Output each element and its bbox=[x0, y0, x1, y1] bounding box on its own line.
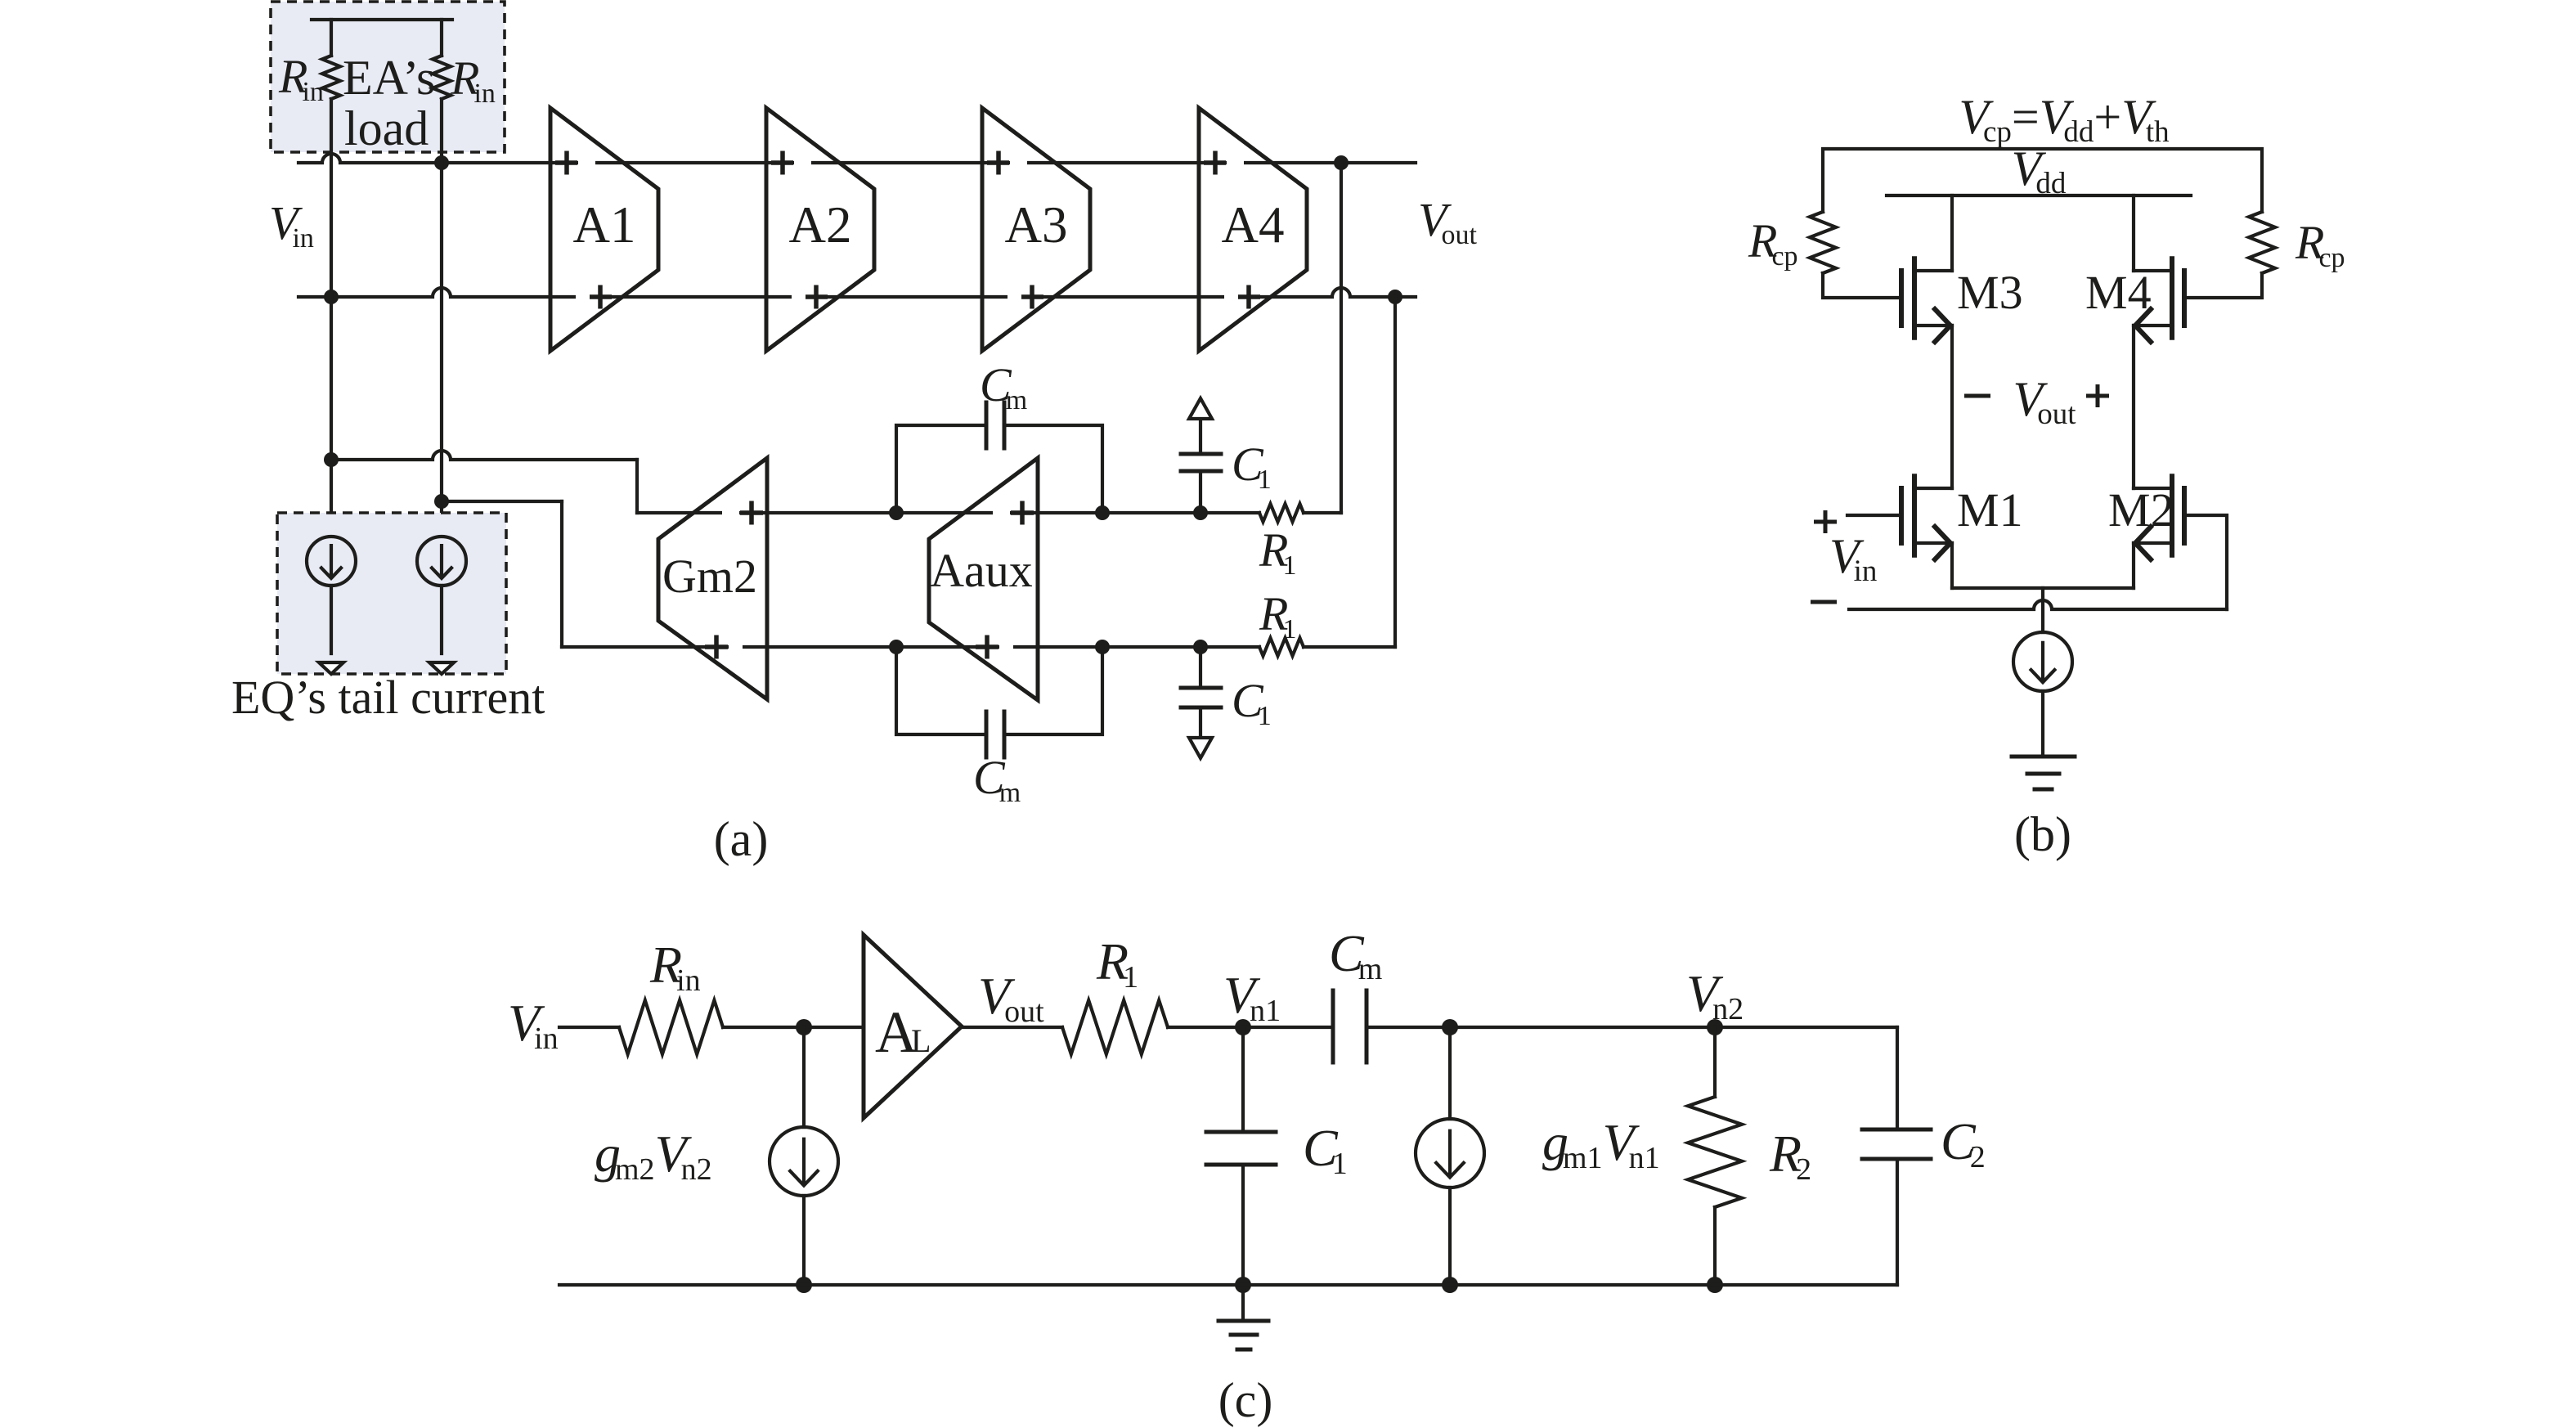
resistor Rin right bbox=[433, 56, 451, 99]
A3 wire gap bottom (input minus) bbox=[1008, 294, 1021, 301]
A1 wire gap top (output minus) bbox=[578, 159, 595, 167]
node dot Cm bottom right bbox=[1095, 640, 1110, 654]
node dot R2 bottom bbox=[1707, 1277, 1723, 1293]
node dot Cm top left bbox=[889, 505, 904, 520]
resistor Rin right lead top bbox=[440, 20, 443, 56]
node dot tap lower bbox=[434, 494, 449, 509]
wire tail left below bbox=[330, 586, 333, 653]
svg-text:EQ’s tail current: EQ’s tail current bbox=[231, 671, 545, 724]
transistor M1 source stub bbox=[1914, 541, 1952, 545]
wire Vout- node (M3 source to M1 drain) bbox=[1950, 326, 1954, 488]
wire right input vertical bbox=[440, 99, 443, 537]
svg-text:load: load bbox=[344, 101, 429, 155]
resistor Rin (c) bbox=[619, 1000, 723, 1054]
node dot gm1 top bbox=[1442, 1019, 1458, 1035]
node dot gm1 bottom bbox=[1442, 1277, 1458, 1293]
svg-text:M3: M3 bbox=[1957, 266, 2023, 319]
transistor M2 gate bar bbox=[2182, 488, 2187, 543]
transistor M4 source arrow bbox=[2135, 309, 2151, 342]
op-amp A2 bbox=[766, 108, 874, 351]
wire feedback tap lower (from right input wire) bbox=[442, 500, 562, 503]
node dot gm2 bottom bbox=[796, 1277, 812, 1293]
transistor M3 drain stub bbox=[1914, 269, 1952, 272]
A2 input + (top) bbox=[780, 151, 785, 175]
wire C2 branch lower bbox=[1896, 1159, 1899, 1285]
node dot Cm bottom left bbox=[889, 640, 904, 654]
A4 input + (top) bbox=[1213, 151, 1218, 175]
svg-text:Gm2: Gm2 bbox=[662, 550, 757, 603]
wire M1 source down bbox=[1950, 543, 1954, 588]
op-amp A3 bbox=[982, 108, 1090, 351]
svg-text:(a): (a) bbox=[714, 812, 769, 866]
capacitor C1 bottom lower lead bbox=[1199, 707, 1202, 747]
node dot Vout- branch bbox=[1388, 290, 1402, 304]
wire Rcp right to M4 gate bbox=[2184, 273, 2262, 298]
node dot C1 top bbox=[1193, 505, 1208, 520]
svg-text:A1: A1 bbox=[573, 196, 636, 254]
A2 output + (bottom) bbox=[814, 285, 819, 309]
label - (Vout b) bbox=[1964, 394, 1990, 398]
capacitor C1 top plates bbox=[1181, 469, 1221, 474]
A2 wire gap bottom (input minus) bbox=[792, 294, 806, 301]
transistor M4 source stub bbox=[2134, 324, 2172, 327]
node dot Vout+ branch bbox=[1334, 155, 1349, 170]
op-amp AL bbox=[864, 935, 962, 1118]
Aaux output + (bottom) bbox=[985, 635, 990, 659]
arrow down (C1 bottom) bbox=[1189, 738, 1212, 758]
label + (Vout b) bbox=[2086, 384, 2109, 407]
wire Rcp left to M3 gate bbox=[1823, 273, 1901, 298]
wire Rin to AL bbox=[723, 1026, 863, 1029]
arrow down tail right bbox=[429, 662, 454, 674]
wire AL to R1 bbox=[962, 1026, 1062, 1029]
node dot C1 bottom (c) bbox=[1235, 1277, 1251, 1293]
capacitor C1 top upper lead bbox=[1199, 410, 1202, 454]
A1 wire gap bottom (input minus) bbox=[576, 294, 590, 301]
transistor M3 source arrow bbox=[1935, 309, 1950, 342]
transistor M1 drain stub bbox=[1914, 487, 1952, 490]
wire Vcp top rail bbox=[1823, 149, 2262, 212]
resistor Rin left lead top bbox=[330, 20, 333, 56]
wire Cm to Vn2 to corner bbox=[1367, 1026, 1897, 1029]
arrow up (C1 top) bbox=[1189, 398, 1212, 419]
transistor M1 gate bar bbox=[1899, 488, 1904, 543]
op-amp Gm2 (transconductor, points left) bbox=[658, 458, 767, 699]
wire Vdd rail bbox=[1887, 194, 2191, 197]
wire M2 source down bbox=[2132, 543, 2135, 588]
node dot top line at right input wire bbox=[434, 155, 449, 170]
wire tail center down bbox=[2041, 588, 2044, 632]
svg-text:M2: M2 bbox=[2108, 483, 2174, 537]
wire Vout+ node (M4 source to M2 drain) bbox=[2132, 326, 2135, 488]
transistor M4 channel bar bbox=[2170, 258, 2174, 337]
A1 input + (top) bbox=[564, 151, 569, 175]
capacitor Cm top bridge wire left bbox=[896, 425, 986, 513]
wire gm2 branch upper bbox=[802, 1027, 806, 1127]
wire M4 drain to Vdd bbox=[2132, 195, 2135, 271]
wire C2 branch upper bbox=[1896, 1027, 1899, 1129]
A3 input + (top) bbox=[996, 151, 1001, 175]
capacitor Cm bottom bridge wire left bbox=[896, 647, 986, 734]
Gm2 wire gap top (output minus) bbox=[722, 510, 739, 517]
capacitor C1 top lead bbox=[1199, 471, 1202, 513]
svg-text:(b): (b) bbox=[2014, 807, 2071, 861]
wire Vin- line bbox=[1849, 600, 2227, 609]
wire left input vertical bbox=[330, 99, 333, 537]
capacitor Cm plates (c) bbox=[1331, 990, 1335, 1062]
current source tail left bbox=[307, 537, 356, 586]
wire feedback bottom line right of R1 bbox=[1304, 645, 1395, 649]
wire feedback bottom line bbox=[562, 645, 1259, 649]
resistor R2 bbox=[1688, 1097, 1742, 1207]
EA's load top bar bbox=[312, 18, 452, 21]
transistor M1 source arrow bbox=[1935, 527, 1950, 559]
resistor Rcp left bbox=[1810, 212, 1836, 273]
op-amp Aaux (auxiliary amp, points left) bbox=[929, 458, 1038, 700]
resistor R1 (c) bbox=[1062, 1000, 1168, 1054]
capacitor C1 branch lower (c) bbox=[1241, 1165, 1245, 1285]
Gm2 input + (top) bbox=[749, 501, 754, 525]
svg-text:Aaux: Aaux bbox=[930, 544, 1033, 597]
wire feedback tap upper (from left input wire) bbox=[331, 451, 637, 460]
node dot bottom line at left input wire bbox=[324, 290, 339, 304]
A4 output + (bottom) bbox=[1246, 285, 1251, 309]
Aaux wire gap top (output minus) bbox=[993, 510, 1010, 517]
wire tail right below bbox=[440, 586, 443, 653]
capacitor C1 bottom plates bbox=[1181, 686, 1221, 690]
Gm2 output + (bottom) bbox=[714, 635, 719, 659]
arrow down tail left bbox=[319, 662, 343, 674]
EA's load box (dashed) bbox=[271, 2, 505, 152]
wire Vin- to A1 (bottom diff line) bbox=[298, 288, 1416, 297]
wire Vin lead (c) bbox=[559, 1026, 619, 1029]
capacitor Cm bottom plates bbox=[985, 712, 989, 757]
A2 wire gap top (output minus) bbox=[794, 159, 811, 167]
wire gm1 branch lower bbox=[1448, 1188, 1452, 1285]
resistor Rin left bbox=[322, 56, 340, 99]
wire gm2 branch lower bbox=[802, 1196, 806, 1285]
wire feedback top line right of R1 bbox=[1304, 511, 1341, 514]
svg-text:A3: A3 bbox=[1005, 196, 1068, 254]
current source gm1Vn1 bbox=[1416, 1119, 1484, 1188]
Aaux input + (top) bbox=[1020, 501, 1025, 525]
wire Vin+ to A1 (top diff line) bbox=[298, 154, 1416, 163]
capacitor Cm top bridge wire right bbox=[1004, 425, 1102, 513]
svg-text:M4: M4 bbox=[2085, 266, 2152, 319]
svg-text:(c): (c) bbox=[1218, 1373, 1273, 1427]
wire gm1 branch upper bbox=[1448, 1027, 1452, 1119]
wire Vout+ vertical to R1 top bbox=[1340, 163, 1343, 513]
A4 wire gap top (output minus) bbox=[1227, 159, 1244, 167]
transistor M1 channel bar bbox=[1912, 476, 1917, 555]
resistor R2 lead lower bbox=[1713, 1207, 1717, 1285]
svg-text:A2: A2 bbox=[789, 196, 852, 254]
transistor M3 gate bar bbox=[1899, 271, 1904, 326]
wire tail bar bbox=[1952, 586, 2134, 590]
wire M3 drain to Vdd bbox=[1950, 195, 1954, 271]
wire Vin+ lead to M1 gate bbox=[1847, 514, 1901, 517]
capacitor Cm top plates bbox=[985, 402, 989, 448]
node dot Vn1 bbox=[1235, 1019, 1251, 1035]
transistor M2 source stub bbox=[2134, 541, 2172, 545]
capacitor C2 plates bbox=[1862, 1128, 1931, 1132]
transistor M4 gate bar bbox=[2182, 271, 2187, 326]
resistor R1 bottom bbox=[1259, 638, 1304, 656]
current source gm2Vn2 bbox=[770, 1127, 838, 1196]
transistor M4 drain stub bbox=[2134, 269, 2172, 272]
Gm2 wire gap bottom (input minus) bbox=[729, 644, 743, 651]
svg-text:EA’s: EA’s bbox=[343, 51, 435, 105]
node dot Cm top right bbox=[1095, 505, 1110, 520]
wire tap upper corner down bbox=[635, 460, 639, 513]
wire tap lower corner down bbox=[560, 501, 563, 647]
A3 wire gap top (output minus) bbox=[1010, 159, 1027, 167]
A3 output + (bottom) bbox=[1030, 285, 1034, 309]
resistor R1 top bbox=[1259, 504, 1304, 522]
capacitor C1 bottom lead bbox=[1199, 647, 1202, 688]
op-amp A4 bbox=[1199, 108, 1307, 351]
resistor Rcp right bbox=[2249, 212, 2275, 273]
transistor M3 channel bar bbox=[1912, 258, 1917, 337]
wire Vout- vertical to R1 bottom bbox=[1393, 297, 1397, 647]
transistor M2 source arrow bbox=[2135, 527, 2151, 559]
ground (b) bbox=[2012, 755, 2075, 759]
op-amp A1 bbox=[550, 108, 658, 351]
wire R1 to Cm bbox=[1168, 1026, 1333, 1029]
label - (Vin b) bbox=[1811, 600, 1837, 604]
capacitor C1 plates (c) bbox=[1206, 1130, 1276, 1134]
Aaux wire gap bottom (input minus) bbox=[999, 644, 1013, 651]
svg-text:M1: M1 bbox=[1957, 483, 2023, 537]
current source tail (b) bbox=[2013, 632, 2072, 691]
node dot gm2 top bbox=[796, 1019, 812, 1035]
svg-text:A4: A4 bbox=[1222, 196, 1285, 254]
wire ground rail (c) bbox=[559, 1283, 1897, 1287]
transistor M2 drain stub bbox=[2134, 487, 2172, 490]
node dot Vn2 bbox=[1707, 1019, 1723, 1035]
wire feedback top line bbox=[637, 511, 1259, 514]
resistor R2 lead upper bbox=[1713, 1027, 1717, 1097]
EQ's tail current box (dashed) bbox=[277, 513, 506, 674]
ground (c) bbox=[1241, 1285, 1245, 1321]
capacitor Cm bottom bridge wire right bbox=[1004, 647, 1102, 734]
transistor M3 source stub bbox=[1914, 324, 1952, 327]
capacitor C1 branch upper (c) bbox=[1241, 1027, 1245, 1132]
A1 output + (bottom) bbox=[598, 285, 603, 309]
wire M2 gate riser bbox=[2184, 515, 2227, 609]
label + (Vin b) bbox=[1814, 510, 1837, 533]
node dot tap upper bbox=[324, 452, 339, 467]
A4 wire gap bottom (input minus) bbox=[1224, 294, 1238, 301]
wire tail source to ground bbox=[2041, 691, 2044, 757]
transistor M2 channel bar bbox=[2170, 476, 2174, 555]
current source tail right bbox=[417, 537, 466, 586]
node dot C1 bottom bbox=[1193, 640, 1208, 654]
